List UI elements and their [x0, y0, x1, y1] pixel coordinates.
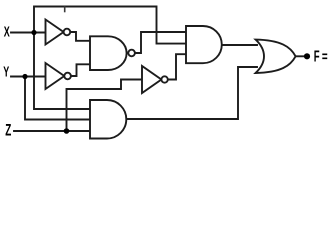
svg-text:Y: Y	[3, 63, 10, 80]
svg-text:X: X	[4, 23, 11, 40]
svg-text:Z: Z	[5, 121, 11, 139]
svg-text:=: =	[322, 49, 328, 66]
svg-text:F: F	[314, 47, 320, 65]
